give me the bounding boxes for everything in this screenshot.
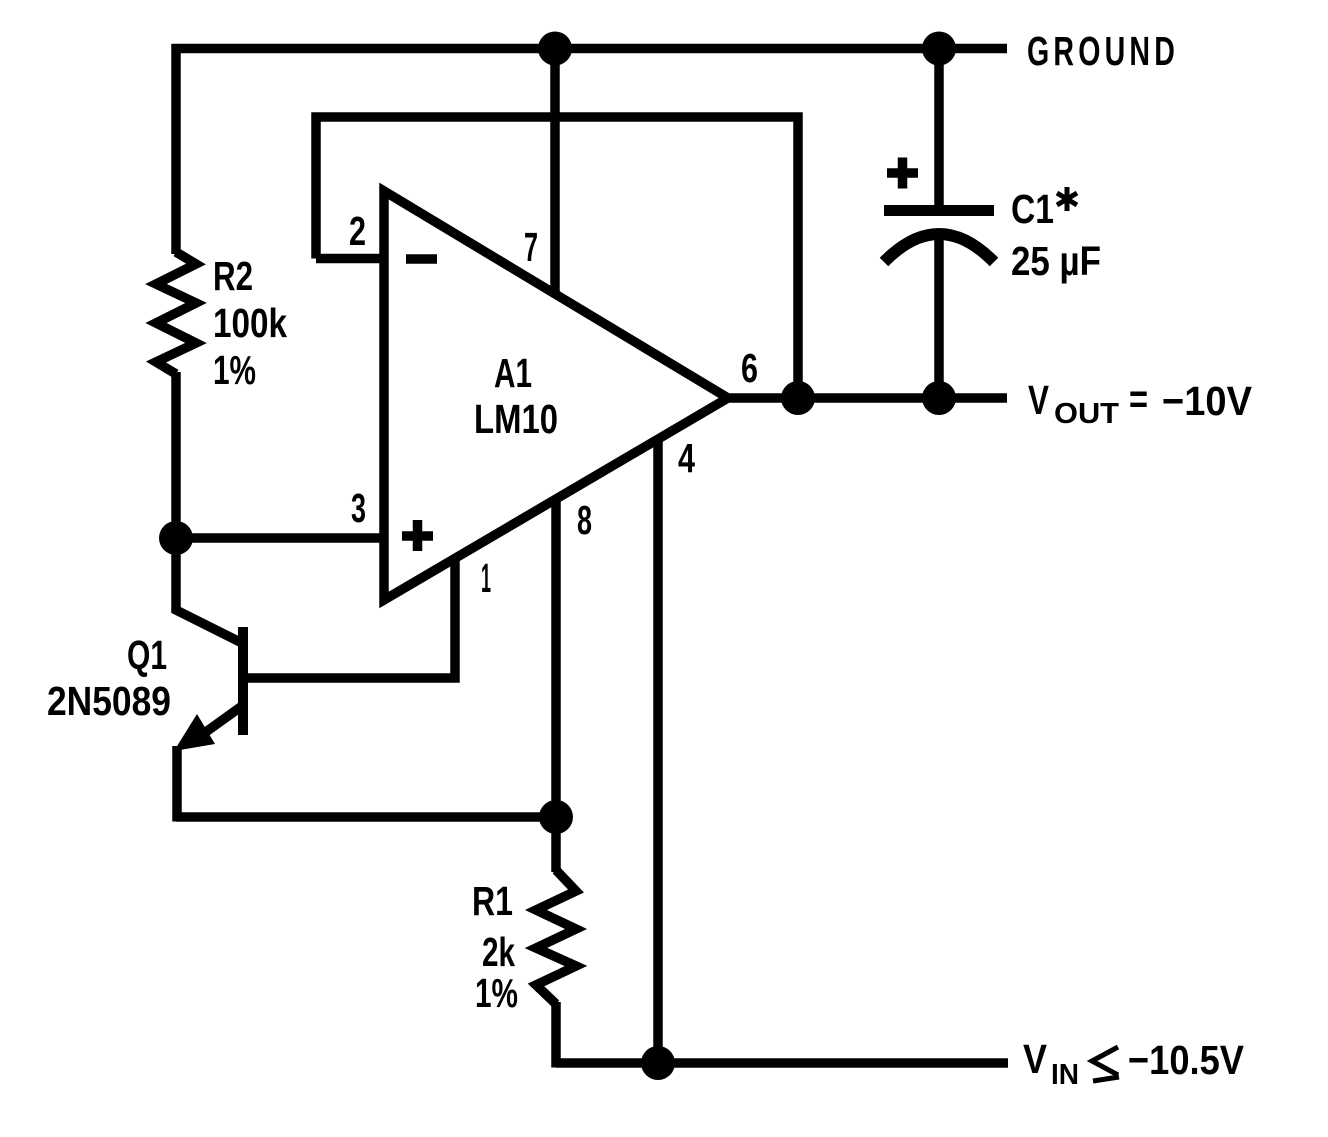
svg-text:1: 1: [481, 555, 491, 601]
svg-text:=: =: [1129, 376, 1148, 422]
svg-text:3: 3: [351, 485, 366, 531]
capacitor C1 polarity plus: [887, 168, 918, 178]
node: junction dot ground/pin7: [538, 32, 572, 66]
svg-text:8: 8: [577, 497, 592, 543]
wire: base lead of Q1: [248, 673, 460, 683]
svg-text:IN: IN: [1051, 1059, 1079, 1091]
label less-or-equal sign: [1092, 1047, 1119, 1081]
wire: pin 4 down to Vin bus: [653, 439, 663, 1063]
wire: output bus from pin 6: [726, 393, 1007, 403]
svg-text:2N5089: 2N5089: [47, 678, 171, 724]
wire: C1 top lead: [934, 44, 944, 208]
wire: feedback loop pin2 to output: [316, 117, 798, 398]
svg-text:LM10: LM10: [474, 396, 558, 442]
wire: Vin bus: [556, 1058, 1008, 1068]
svg-text:4: 4: [678, 435, 695, 481]
transistor Q1 emitter arrowhead: [174, 714, 215, 751]
node: junction dot at pin3/left rail: [159, 521, 193, 555]
op-amp U1 triangle: [384, 191, 728, 600]
svg-text:Q1: Q1: [127, 632, 167, 678]
node: junction dot ground/C1: [922, 32, 956, 66]
wire: pin 1 down: [450, 557, 460, 683]
resistor R1: [536, 870, 576, 1004]
svg-text:R1: R1: [472, 878, 513, 924]
svg-text:A1: A1: [494, 350, 532, 396]
wire: pin 8 down to emitter node: [551, 498, 561, 816]
wire: R2 bottom to node at pin3: [171, 372, 181, 538]
svg-text:C1: C1: [1011, 186, 1054, 232]
wire: pin 7 to ground bus: [550, 49, 560, 295]
capacitor C1 curved plate: [884, 234, 994, 262]
transistor Q1 emitter lead: [203, 706, 242, 734]
wire: ground bus top: [172, 44, 1008, 54]
node: junction dot output/feedback: [781, 381, 815, 415]
wire: left vertical from ground bus to R2 top: [171, 44, 181, 254]
op-amp minus input sign: [406, 254, 437, 264]
svg-text:1%: 1%: [213, 347, 256, 393]
svg-text:V: V: [1023, 1036, 1048, 1082]
svg-text:2: 2: [349, 208, 366, 254]
op-amp plus input sign: [402, 531, 433, 541]
label C1 footnote asterisk: [1057, 187, 1077, 211]
svg-text:1%: 1%: [475, 970, 518, 1016]
wire: C1 bottom lead to output: [934, 238, 944, 398]
wire: pin 2 stub: [316, 254, 384, 264]
transistor Q1 base bar: [238, 627, 248, 735]
wire: emitter rail to R1 node: [176, 812, 556, 822]
node: junction dot emitter/pin8/R1: [539, 800, 573, 834]
node: junction dot output/C1: [922, 381, 956, 415]
svg-text:−10V: −10V: [1162, 378, 1253, 424]
svg-text:6: 6: [741, 345, 758, 391]
svg-text:2k: 2k: [482, 929, 515, 975]
svg-text:R2: R2: [213, 253, 253, 299]
svg-text:25 µF: 25 µF: [1011, 238, 1101, 284]
node: junction dot Vin/pin4: [641, 1046, 675, 1080]
svg-text:−10.5V: −10.5V: [1128, 1037, 1245, 1083]
svg-text:OUT: OUT: [1054, 398, 1119, 430]
svg-text:100k: 100k: [213, 300, 287, 346]
wire: R1 bottom to Vin bus: [551, 1002, 561, 1068]
svg-text:GROUND: GROUND: [1027, 28, 1179, 74]
capacitor C1 top plate: [884, 205, 994, 216]
svg-text:7: 7: [524, 224, 538, 270]
transistor Q1 collector lead: [176, 534, 242, 643]
resistor R2: [156, 252, 196, 374]
wire: node to R1 top: [551, 817, 561, 872]
wire: pin 3 stub: [176, 533, 384, 543]
wire: emitter down to bottom rail: [172, 746, 182, 822]
svg-text:V: V: [1028, 377, 1049, 423]
